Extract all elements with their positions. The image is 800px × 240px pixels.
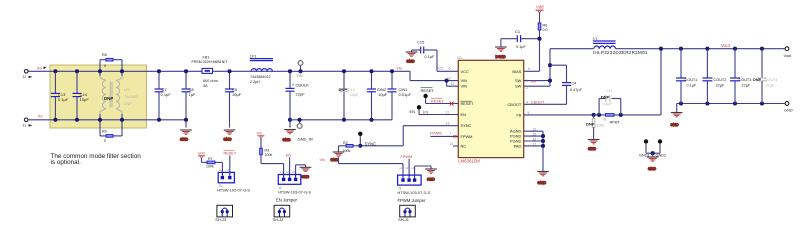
svg-text:RFBT: RFBT — [610, 120, 621, 125]
svg-text:0.1µF: 0.1µF — [58, 97, 69, 102]
capacitor C15 with ground (VCC bypass) — [412, 39, 459, 71]
svg-text:SW: SW — [515, 84, 522, 89]
connector J1 (Vin- terminal) — [23, 118, 33, 127]
svg-text:0.1µF: 0.1µF — [425, 55, 435, 59]
svg-text:100k: 100k — [343, 149, 351, 153]
svg-text:10µF: 10µF — [232, 92, 242, 97]
wire J1 pin3 to ground — [415, 166, 431, 175]
svg-text:+: + — [292, 82, 295, 87]
svg-text:R3: R3 — [265, 148, 270, 152]
inductor L1 — [593, 37, 648, 55]
svg-text:Vdd: Vdd — [536, 5, 544, 10]
ground output rail — [671, 104, 683, 127]
svg-text:EN: EN — [423, 111, 429, 115]
capacitor COUT2 — [702, 49, 726, 104]
svg-text:100k: 100k — [597, 123, 605, 127]
svg-text:1µF: 1µF — [189, 92, 197, 97]
svg-text:C1: C1 — [515, 29, 521, 34]
wire CBOOT net — [524, 100, 567, 104]
svg-text:SYNC: SYNC — [461, 123, 472, 128]
svg-text:GND: GND — [538, 181, 547, 185]
svg-text:x1: x1 — [280, 170, 283, 174]
capacitor COUT4 (DNP ghost) — [753, 49, 777, 104]
capacitor C14 — [73, 71, 90, 120]
wire bottom rail mid (GND_IN net) — [290, 119, 392, 121]
svg-text:HTSW-103-07-G-S: HTSW-103-07-G-S — [398, 190, 431, 195]
header J1 (HTSW-103-07-G-S) — [398, 166, 431, 203]
jumper shunt SH-J3 — [215, 205, 232, 222]
svg-text:x2: x2 — [226, 168, 229, 172]
svg-text:6: 6 — [449, 66, 451, 70]
svg-text:0: 0 — [104, 139, 106, 143]
resistor RFBB (DNP ghost) with ground — [586, 115, 604, 139]
capacitor CBULK (polarized) — [286, 69, 310, 127]
svg-text:EN Jumper: EN Jumper — [276, 198, 298, 203]
capacitor C1 with ground (BIAS) — [501, 29, 540, 49]
svg-text:0.1µF: 0.1µF — [687, 83, 697, 87]
test point GND2 — [656, 139, 667, 157]
net label RESET (red) — [431, 99, 454, 106]
ferrite bead FB1 — [192, 55, 229, 87]
svg-text:LM63615M: LM63615M — [458, 159, 480, 164]
test point EN — [410, 105, 459, 114]
capacitor COUT3 — [730, 49, 751, 104]
capacitor CFF (DNP ghost, parallel RFBT) — [599, 89, 621, 115]
wire bottom rail input — [28, 119, 186, 121]
resistor RFBT 0 ohm — [604, 114, 621, 125]
U1 right pin names — [507, 69, 521, 149]
svg-text:VIN: VIN — [297, 74, 303, 78]
svg-text:CBULK: CBULK — [296, 83, 310, 88]
svg-text:IHLP3232DZER2R2M01: IHLP3232DZER2R2M01 — [593, 50, 648, 55]
svg-text:R9: R9 — [102, 130, 107, 134]
svg-text:0: 0 — [104, 64, 106, 68]
net label Vin (near R2 gnd) — [320, 158, 325, 162]
capacitor C8 with ground — [182, 69, 197, 127]
svg-text:FPWM: FPWM — [430, 132, 442, 136]
svg-text:IN+: IN+ — [37, 67, 44, 71]
svg-text:J1: J1 — [23, 123, 27, 127]
svg-text:SW: SW — [515, 78, 522, 83]
svg-text:PRSM-3226+M6B1N/T: PRSM-3226+M6B1N/T — [192, 60, 229, 64]
junction dots filter — [53, 69, 124, 122]
svg-text:EN: EN — [461, 112, 467, 117]
svg-text:100k: 100k — [206, 165, 214, 169]
svg-text:GND: GND — [427, 178, 435, 182]
wire J2 pin3 to ground — [296, 165, 306, 175]
svg-text:VIN: VIN — [461, 78, 468, 83]
capacitor C10 (DNP ghost) — [339, 69, 360, 122]
header J2 (HTSW-103-07-G-S) — [276, 170, 311, 203]
connector J2 (Vin+ terminal) — [23, 70, 33, 79]
svg-text:10µF: 10µF — [80, 97, 90, 102]
svg-text:Vout: Vout — [784, 53, 793, 58]
svg-text:SH-J1: SH-J1 — [398, 217, 409, 222]
ground under C9 — [224, 130, 236, 142]
svg-text:L1: L1 — [593, 37, 597, 41]
ground under U1 — [537, 172, 549, 186]
ground at R2 — [331, 146, 345, 162]
wire AGND/PGND/PAD to ground — [524, 128, 545, 171]
svg-text:CBOOT: CBOOT — [531, 100, 545, 104]
svg-text:10µF: 10µF — [378, 92, 388, 97]
capacitor CIN2 — [367, 69, 388, 122]
svg-text:IN-: IN- — [38, 115, 44, 119]
net label EN (red) + pin 11 — [423, 111, 449, 115]
svg-text:100k: 100k — [265, 153, 273, 157]
net label FPWM (red, J1) — [401, 155, 413, 175]
svg-text:x3: x3 — [411, 166, 414, 170]
svg-text:3A: 3A — [203, 84, 208, 88]
svg-text:0: 0 — [604, 117, 606, 121]
svg-text:0.47µF: 0.47µF — [570, 88, 583, 92]
svg-text:1: 1 — [526, 79, 528, 83]
svg-text:GND: GND — [283, 138, 291, 142]
svg-text:10µF: 10µF — [350, 92, 360, 97]
capacitor C13 — [51, 71, 69, 120]
resistor R2 100k — [339, 141, 361, 153]
svg-text:GND: GND — [407, 60, 415, 64]
svg-text:DGND: DGND — [496, 55, 507, 59]
test point SYNC — [358, 132, 376, 148]
connector GND terminal — [784, 102, 793, 113]
svg-text:SW: SW — [531, 79, 538, 83]
jumper shunt SH-J2 — [273, 205, 290, 222]
resistor R6 0.0 — [538, 17, 547, 39]
svg-text:22µF: 22µF — [716, 83, 725, 87]
svg-text:5: 5 — [528, 111, 530, 115]
svg-text:10: 10 — [447, 77, 451, 81]
svg-text:VCC: VCC — [436, 66, 444, 70]
net label GND_IN — [298, 137, 313, 142]
svg-text:RESET: RESET — [461, 101, 475, 106]
svg-text:GND_IN: GND_IN — [298, 137, 313, 142]
svg-text:DNP: DNP — [601, 94, 610, 99]
power flag Vdd (J3 pull-up) — [198, 151, 205, 162]
svg-text:DNP: DNP — [124, 102, 132, 106]
wire SW net — [524, 49, 594, 90]
svg-text:14: 14 — [449, 142, 453, 146]
svg-text:600 ohm: 600 ohm — [203, 79, 218, 83]
svg-text:FPWM Jumper: FPWM Jumper — [398, 198, 427, 203]
svg-text:9: 9 — [528, 67, 530, 71]
svg-text:0.01µF: 0.01µF — [399, 92, 412, 97]
svg-text:C11: C11 — [606, 89, 612, 93]
svg-text:GND: GND — [588, 147, 596, 151]
svg-text:22µF: 22µF — [296, 91, 306, 96]
svg-text:DNP: DNP — [339, 87, 348, 92]
svg-text:COUT1: COUT1 — [685, 78, 698, 82]
note text — [51, 153, 142, 166]
capacitor C9 with ground — [225, 69, 242, 127]
svg-text:FPWM: FPWM — [461, 134, 473, 139]
ground under C15 — [406, 50, 418, 64]
ground under RFBB — [588, 140, 600, 151]
wire FB net — [524, 49, 661, 117]
svg-text:7443884022: 7443884022 — [250, 75, 271, 79]
svg-text:x1: x1 — [399, 166, 402, 170]
svg-text:GND: GND — [180, 138, 188, 142]
net label IN- — [38, 115, 44, 119]
svg-text:SYNC: SYNC — [365, 142, 377, 147]
svg-text:0.1µF: 0.1µF — [516, 45, 526, 49]
wire GND1-GND2 join — [646, 151, 660, 156]
ground under C8 — [180, 130, 192, 142]
svg-text:2: 2 — [526, 86, 528, 90]
ground DGND under C1 — [495, 47, 507, 59]
svg-text:FB: FB — [516, 112, 521, 117]
svg-text:BIAS: BIAS — [512, 69, 521, 74]
net label FPWM at pin + stub — [430, 132, 458, 147]
svg-text:x2: x2 — [405, 166, 408, 170]
svg-text:10: 10 — [533, 128, 537, 132]
svg-text:DNP: DNP — [586, 121, 595, 126]
svg-text:NC: NC — [461, 144, 467, 149]
svg-text:x1: x1 — [219, 168, 222, 172]
svg-text:Vin: Vin — [257, 132, 262, 136]
svg-text:4: 4 — [526, 100, 528, 104]
svg-text:Vin: Vin — [320, 158, 325, 162]
svg-text:0.1µF: 0.1µF — [161, 92, 172, 97]
svg-text:R7: R7 — [208, 157, 213, 161]
svg-text:Vout: Vout — [721, 43, 731, 48]
common-mode choke LF2 (DNP ghost) — [100, 71, 138, 120]
svg-text:R6: R6 — [543, 24, 548, 28]
svg-text:C15: C15 — [417, 39, 425, 44]
svg-text:Vin: Vin — [397, 66, 402, 70]
svg-text:COUT2: COUT2 — [714, 78, 727, 82]
wire BIAS net — [524, 37, 542, 72]
svg-text:VCC: VCC — [461, 69, 469, 74]
wire top rail input — [28, 71, 458, 86]
pin numbers VIN — [447, 77, 454, 87]
svg-text:SH-J2: SH-J2 — [273, 217, 284, 222]
svg-text:C4: C4 — [572, 82, 577, 86]
svg-text:13: 13 — [446, 122, 450, 126]
capacitor C7 — [155, 69, 172, 122]
capacitor CIN1 — [388, 69, 412, 120]
op-amp U1 (regulator IC body) — [457, 55, 524, 164]
svg-text:22µF: 22µF — [742, 83, 751, 87]
test point GND1 — [639, 139, 650, 157]
svg-text:DNP: DNP — [104, 96, 113, 101]
wire SYNC net — [360, 122, 458, 146]
jumper shunt SH-J1 — [398, 205, 415, 222]
svg-text:COUT3: COUT3 — [739, 78, 752, 82]
svg-text:HTSW-102-07-G-S: HTSW-102-07-G-S — [217, 188, 250, 193]
capacitor COUT1 — [676, 49, 697, 104]
svg-text:16: 16 — [533, 137, 537, 141]
test point RESET — [421, 88, 459, 104]
svg-text:EN: EN — [410, 109, 416, 114]
wire Vout rail — [616, 47, 785, 51]
svg-text:11: 11 — [446, 111, 450, 115]
ground GND_IN under CBULK — [283, 130, 296, 142]
svg-text:U1: U1 — [457, 55, 463, 60]
svg-text:GND: GND — [302, 175, 310, 179]
svg-text:x3: x3 — [292, 170, 295, 174]
svg-text:COUT4: COUT4 — [765, 78, 778, 82]
net label EN (red, J2) — [286, 154, 292, 175]
header J3 (HTSW-102-07-G-S) — [217, 168, 250, 193]
svg-text:GND: GND — [671, 123, 679, 127]
svg-text:x2: x2 — [286, 170, 289, 174]
svg-text:0.0: 0.0 — [543, 28, 548, 32]
svg-text:12: 12 — [451, 82, 455, 86]
wire output bottom rail — [677, 101, 785, 105]
svg-text:7442632: 7442632 — [124, 95, 138, 99]
svg-text:R8: R8 — [102, 53, 107, 57]
net label Vout — [721, 43, 731, 48]
svg-text:RESET: RESET — [431, 100, 444, 104]
svg-text:GND: GND — [224, 138, 232, 142]
svg-text:Vdd: Vdd — [198, 151, 205, 155]
net label IN+ — [37, 66, 47, 70]
svg-text:RESET: RESET — [224, 152, 237, 156]
test point GND_IN — [297, 118, 302, 129]
svg-text:is optional.: is optional. — [51, 159, 82, 166]
net label VCC + pin 6 — [436, 66, 451, 70]
svg-text:SH-J3: SH-J3 — [215, 217, 226, 222]
resistor R8 (bypass, 0 ohm) — [100, 53, 122, 71]
svg-text:7: 7 — [449, 132, 451, 136]
net label Vin (rail) — [397, 66, 402, 70]
svg-text:22µF: 22µF — [766, 83, 775, 87]
ground under GND1/GND2 — [647, 157, 659, 171]
resistor R9 (bypass, 0 ohm) — [100, 120, 122, 143]
svg-text:HTSW-103-07-G-S: HTSW-103-07-G-S — [278, 189, 311, 194]
svg-text:GND: GND — [648, 167, 656, 171]
svg-text:PAD: PAD — [514, 143, 522, 148]
net label RESET (red, J3) — [224, 151, 237, 173]
common-mode filter highlight box — [50, 65, 147, 128]
svg-text:FB1: FB1 — [203, 55, 210, 59]
svg-text:CBOOT: CBOOT — [507, 102, 521, 107]
connector Vout terminal — [784, 47, 793, 58]
svg-text:17: 17 — [533, 142, 537, 146]
svg-text:0.1µF: 0.1µF — [603, 102, 613, 106]
ground at J2 — [300, 165, 312, 179]
inductor LF1 — [250, 55, 273, 85]
resistor R7 100k — [202, 157, 223, 172]
svg-text:DNP: DNP — [753, 78, 761, 82]
svg-text:GND: GND — [331, 158, 339, 162]
svg-text:VIN: VIN — [461, 84, 468, 89]
power flag Vdd (top) — [536, 5, 545, 17]
ground at J1 — [425, 166, 437, 182]
svg-text:GND: GND — [784, 107, 793, 112]
test point VIN — [297, 61, 303, 79]
wire J1 pin1 to ground (long) — [339, 157, 404, 175]
U1 left pin names — [461, 69, 475, 149]
resistor R3 100k — [260, 148, 284, 174]
junction VIN pins — [445, 79, 449, 83]
svg-text:FPWM: FPWM — [401, 155, 413, 159]
capacitor C4 (CBOOT) — [550, 65, 583, 104]
svg-text:LF2: LF2 — [124, 88, 130, 92]
svg-text:2.2µH: 2.2µH — [250, 80, 260, 84]
svg-text:15: 15 — [533, 133, 537, 137]
svg-text:J2: J2 — [23, 75, 27, 79]
power flag Vin (R3 pull-up) — [257, 132, 265, 149]
svg-text:EN: EN — [286, 154, 292, 158]
svg-text:RESET: RESET — [421, 88, 435, 93]
